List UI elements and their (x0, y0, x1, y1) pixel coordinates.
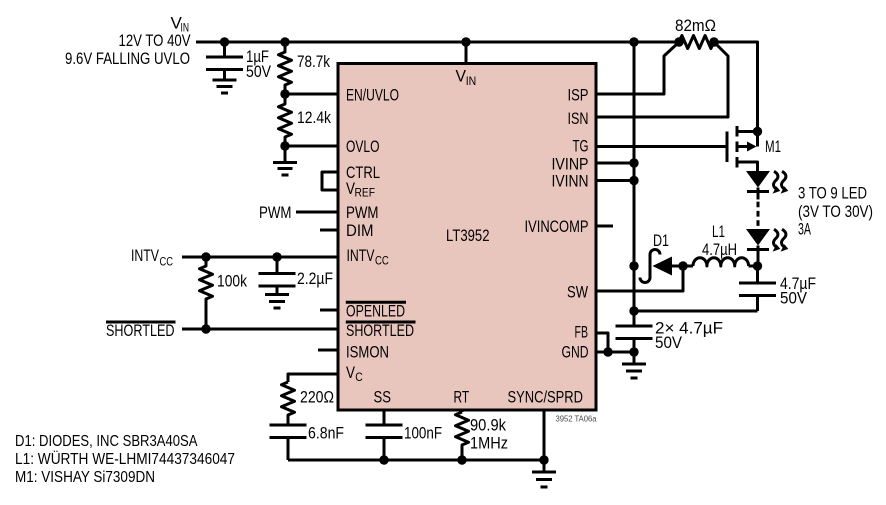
svg-text:78.7k: 78.7k (297, 52, 330, 71)
wire GND (596, 351, 634, 354)
svg-text:IVINP: IVINP (552, 154, 589, 173)
node junction VIN-1uF (220, 37, 229, 46)
svg-text:L1: WÜRTH WE-LHMI74437346047: L1: WÜRTH WE-LHMI74437346047 (15, 450, 235, 468)
svg-text:CC: CC (160, 255, 174, 269)
node junction IVINP (629, 158, 638, 167)
wire FB (596, 333, 608, 352)
transistor M1 PMOS (727, 126, 781, 171)
pin label VIN (456, 67, 477, 89)
pin label OPENLED (346, 301, 406, 320)
wire OPENLED stub (320, 309, 338, 312)
svg-text:IVINN: IVINN (552, 172, 589, 191)
wire VIN rail (196, 41, 679, 44)
node junction INTVCC-100k (201, 252, 210, 261)
wire IVINN (596, 179, 634, 182)
resistor R5 90.9k 1MHz (456, 409, 509, 460)
LED D2 top (746, 171, 770, 200)
wire vertical VIN rail (633, 42, 636, 326)
node junction 82m left (674, 37, 683, 46)
capacitor C2 2.2uF (259, 257, 334, 294)
capacitor C3 6.8nF (270, 424, 345, 461)
wire VIN pin (465, 42, 468, 62)
node junction INTVCC-2.2uF (272, 252, 281, 261)
wire OVLO (285, 145, 338, 148)
IC U1 LT3952 body (338, 64, 596, 411)
svg-text:100nF: 100nF (404, 424, 442, 443)
svg-text:L1: L1 (712, 222, 725, 241)
LED emission arrows top (773, 171, 789, 193)
svg-text:50V: 50V (655, 333, 683, 352)
ground under divider (273, 146, 297, 175)
node junction EN/UVLO (280, 89, 289, 98)
capacitor C6 2x4.7uF 50V input (616, 319, 724, 353)
node LED annotation (798, 184, 873, 239)
wire bottom rail (288, 459, 544, 462)
svg-text:4.7µH: 4.7µH (702, 240, 737, 259)
svg-text:SHORTLED: SHORTLED (106, 321, 175, 340)
node junction VIN-pin (461, 37, 470, 46)
ground main (622, 352, 646, 378)
svg-text:M1: VISHAY Si7309DN: M1: VISHAY Si7309DN (15, 469, 155, 486)
capacitor C5 4.7uF 50V output (739, 266, 816, 311)
node junction SS-rail (379, 455, 388, 464)
node junction SHORTLED-100k (201, 324, 210, 333)
svg-text:SYNC/SPRD: SYNC/SPRD (508, 388, 584, 407)
ground under C1 (213, 80, 237, 93)
svg-text:9.6V FALLING UVLO: 9.6V FALLING UVLO (65, 49, 190, 68)
wire ISP kelvin (596, 43, 678, 94)
resistor R3 100k (200, 257, 248, 329)
node junction OVLO (280, 141, 289, 150)
svg-text:82mΩ: 82mΩ (675, 16, 716, 35)
svg-text:50V: 50V (246, 62, 272, 81)
pin label SHORTLED (346, 321, 416, 340)
svg-text:OVLO: OVLO (346, 137, 380, 156)
resistor R1 78.7k (279, 42, 331, 94)
svg-text:INTV: INTV (347, 246, 375, 265)
svg-text:3952 TA06a: 3952 TA06a (556, 414, 597, 424)
svg-text:IN: IN (466, 74, 477, 88)
node SHORTLED label (106, 321, 176, 340)
node junction VIN-divider (280, 37, 289, 46)
svg-text:FB: FB (575, 322, 589, 341)
resistor R6 82mOhm sense (675, 16, 716, 49)
svg-text:EN/UVLO: EN/UVLO (346, 85, 399, 104)
svg-text:REF: REF (355, 186, 376, 200)
svg-text:SW: SW (567, 282, 588, 301)
wire PWM (296, 211, 338, 214)
node junction IVINN (629, 176, 638, 185)
node junction GND-rail (629, 347, 638, 356)
svg-text:(3V TO 30V): (3V TO 30V) (798, 202, 873, 221)
svg-text:2.2µF: 2.2µF (297, 269, 333, 288)
capacitor C1 1uF 50V (206, 42, 272, 81)
pin label INTVCC (347, 246, 390, 268)
wire INTVCC (182, 256, 338, 259)
wire SYNC/SPRD down (543, 409, 546, 460)
wire CTRL-VREF loop (322, 172, 338, 190)
node junction D1 anode / SW / L1 (678, 261, 687, 270)
wire ISMON stub (318, 349, 338, 352)
node INTVCC label (131, 246, 173, 269)
svg-text:90.9k: 90.9k (470, 416, 506, 435)
svg-text:IVINCOMP: IVINCOMP (525, 217, 589, 236)
svg-text:LT3952: LT3952 (446, 226, 490, 245)
svg-text:PWM: PWM (259, 203, 292, 222)
LED emission arrows bottom (773, 229, 789, 251)
wire IVINP (596, 162, 634, 165)
diode D1 schottky (640, 231, 683, 283)
LED D3 bottom (746, 229, 770, 266)
ground under C2 (265, 295, 289, 309)
svg-text:TG: TG (573, 137, 589, 156)
wire 82m right to M1 drain (714, 42, 758, 132)
svg-text:ISN: ISN (568, 109, 589, 128)
wire IVINCOMP stub (596, 225, 613, 228)
pin label VREF (346, 179, 375, 200)
node junction VIN-vertical rail (629, 37, 638, 46)
svg-text:INTV: INTV (131, 246, 159, 265)
svg-text:6.8nF: 6.8nF (308, 424, 344, 443)
inductor L1 4.7uH (683, 222, 758, 266)
node junction LED/L1/C5 (753, 261, 762, 270)
svg-text:OPENLED: OPENLED (346, 301, 405, 320)
node junction D1 cathode (629, 261, 638, 270)
node junction SYNC-rail (539, 455, 548, 464)
node legend (15, 433, 235, 486)
node junction 82m right (709, 37, 718, 46)
svg-text:12.4k: 12.4k (297, 108, 331, 127)
svg-text:12V TO 40V: 12V TO 40V (119, 31, 192, 50)
svg-text:100k: 100k (217, 272, 247, 291)
svg-text:50V: 50V (780, 289, 808, 308)
svg-text:PWM: PWM (346, 203, 379, 222)
pin label VC (346, 363, 363, 384)
svg-text:ISMON: ISMON (346, 343, 389, 362)
svg-text:SS: SS (374, 388, 392, 407)
svg-text:3 TO 9 LED: 3 TO 9 LED (798, 184, 867, 203)
svg-text:RT: RT (454, 388, 470, 407)
wire EN/UVLO (285, 93, 338, 96)
svg-text:CC: CC (375, 254, 389, 268)
node junction RT-rail (457, 455, 466, 464)
wire dashed LED string (757, 202, 760, 230)
svg-text:GND: GND (562, 343, 589, 362)
wire VC (288, 374, 338, 382)
ground under SYNC/SPRD (532, 460, 556, 487)
svg-text:D1: D1 (653, 231, 669, 250)
node VIN input label (65, 14, 191, 69)
svg-text:D1: DIODES, INC SBR3A40SA: D1: DIODES, INC SBR3A40SA (15, 433, 198, 450)
node junction return-rail (629, 306, 638, 315)
svg-text:1MHz: 1MHz (470, 434, 508, 453)
svg-text:220Ω: 220Ω (300, 388, 334, 407)
svg-text:SHORTLED: SHORTLED (346, 321, 414, 340)
svg-text:V: V (346, 363, 356, 382)
node junction FB-GND (603, 347, 612, 356)
wire SHORTLED (182, 328, 338, 331)
svg-text:DIM: DIM (346, 221, 374, 240)
wire TG (596, 145, 727, 148)
wire SW (596, 266, 683, 291)
resistor R4 220ohm (282, 382, 335, 425)
svg-text:3A: 3A (798, 220, 811, 239)
wire output return (634, 310, 758, 313)
svg-text:ISP: ISP (568, 85, 589, 104)
wire SS pin down (383, 409, 386, 425)
svg-text:M1: M1 (765, 137, 781, 156)
wire ISN kelvin (596, 43, 728, 117)
wire DIM stub (320, 229, 338, 232)
capacitor C4 100nF (366, 424, 443, 461)
svg-text:C: C (355, 370, 363, 384)
resistor R2 12.4k (279, 94, 332, 146)
